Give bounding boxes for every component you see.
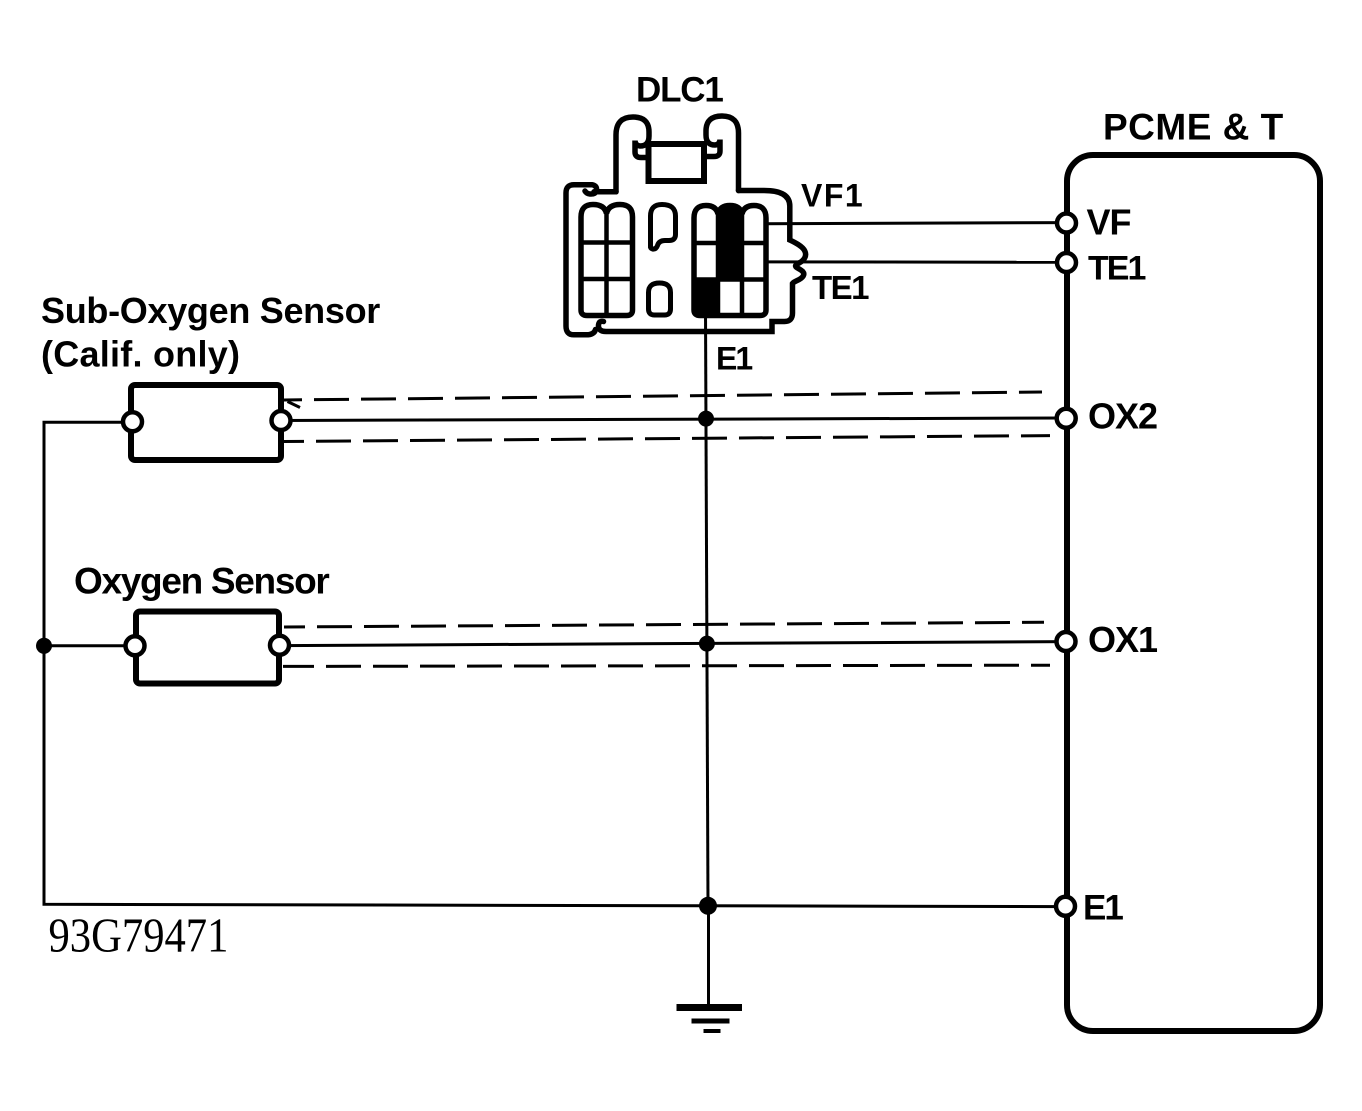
svg-text:Oxygen Sensor: Oxygen Sensor xyxy=(74,561,329,602)
left pin group grid dividers xyxy=(604,214,609,316)
PCME & T ECU box xyxy=(1067,155,1320,1031)
Sub-Oxygen Sensor box xyxy=(131,385,281,460)
body right/bottom outline xyxy=(598,191,805,332)
ground symbol xyxy=(677,1008,743,1032)
connector DLC1 body xyxy=(566,116,806,335)
node junction E1/OX2 wire xyxy=(698,411,714,427)
node junction E1/bottom wire xyxy=(699,897,717,915)
middle pin lower xyxy=(649,283,671,315)
left ear crook and post xyxy=(616,117,649,192)
svg-text:E1: E1 xyxy=(1083,889,1123,928)
wire OX1 signal xyxy=(280,642,1066,646)
svg-text:93G79471: 93G79471 xyxy=(49,908,229,962)
svg-text:OX1: OX1 xyxy=(1088,619,1158,660)
pin circle oxygen left xyxy=(126,636,145,655)
pin circle E1 xyxy=(1056,897,1075,916)
wire OX2 signal xyxy=(281,418,1066,421)
wire left rail (sensor grounds) xyxy=(44,422,1065,906)
wire OX2 shield upper (dashed) xyxy=(284,392,1042,400)
wire VF1 to VF xyxy=(742,223,1066,224)
svg-text:PCME & T: PCME & T xyxy=(1103,107,1284,148)
svg-text:OX2: OX2 xyxy=(1088,396,1157,437)
pin circle OX2 xyxy=(1057,409,1076,428)
body top edge left of ear xyxy=(594,189,616,195)
pin TE1/VF1 black column xyxy=(718,207,742,280)
wire oxygen sensor to rail xyxy=(44,644,133,647)
left pin group xyxy=(581,205,633,316)
wire OX1 shield lower (dashed) xyxy=(283,665,1050,666)
node junction rail/OX1 wire xyxy=(36,638,52,654)
wire OX1 shield upper (dashed) xyxy=(284,622,1044,627)
svg-text:DLC1: DLC1 xyxy=(636,71,723,110)
right ear crook and post xyxy=(706,116,739,191)
svg-text:TE1: TE1 xyxy=(1088,250,1145,288)
node junction E1/OX1 wire xyxy=(699,636,715,652)
svg-text:E1: E1 xyxy=(716,341,752,377)
DLC1 top rectangle xyxy=(649,144,705,181)
svg-text:VF: VF xyxy=(1087,202,1131,243)
svg-text:Sub-Oxygen Sensor: Sub-Oxygen Sensor xyxy=(41,290,380,331)
pin circle OX1 xyxy=(1057,632,1076,651)
tick at OX2 shield start xyxy=(288,402,301,408)
pin circle TE1 xyxy=(1057,253,1076,272)
wire OX2 shield lower (dashed) xyxy=(284,436,1050,442)
pin circle oxygen right xyxy=(270,636,289,655)
right pin group grid dividers xyxy=(694,241,766,246)
pin circle sub-oxygen right xyxy=(272,411,291,430)
Oxygen Sensor box xyxy=(136,612,279,684)
body left outline with corner hooks xyxy=(566,185,597,335)
middle pin upper xyxy=(650,205,675,250)
pin circle VF xyxy=(1057,214,1076,233)
svg-text:VF1: VF1 xyxy=(801,178,864,214)
wire TE1 to TE1 xyxy=(742,260,1066,264)
wire ground stem xyxy=(707,906,710,1007)
pin circle sub-oxygen left xyxy=(123,412,142,431)
svg-text:(Calif. only): (Calif. only) xyxy=(41,334,240,375)
wire E1 vertical from DLC1 xyxy=(706,310,709,906)
right pin group xyxy=(694,206,766,316)
pin E1 black cell xyxy=(694,280,718,316)
svg-text:TE1: TE1 xyxy=(812,269,869,306)
